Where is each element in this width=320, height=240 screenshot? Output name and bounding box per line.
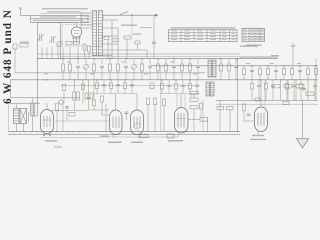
transformer T4 turn 1: [31, 104, 34, 106]
table2 cell r4c1: [243, 36, 247, 39]
capacitor C41: [302, 88, 306, 90]
resistor Rg16: [299, 84, 302, 90]
mains plug arrow: [297, 139, 309, 149]
wire R29 right: [207, 119, 209, 131]
resistor R36: [290, 69, 293, 75]
IF T2 secondary turn 7: [213, 73, 217, 75]
resistor R24: [154, 98, 157, 105]
table column line 2: [193, 30, 195, 42]
heater twist 2: [18, 132, 21, 135]
wire drop L4: [57, 47, 59, 59]
junction 2: [77, 58, 78, 59]
resistor R20: [140, 64, 143, 71]
IF T3 turn 5: [206, 90, 210, 92]
wire mid v: [219, 100, 221, 131]
wire drop c1-15: [173, 59, 175, 64]
resistor Rf0: [95, 83, 98, 89]
resistor R2: [66, 42, 72, 45]
wire top bus vertical: [102, 15, 104, 20]
tube V4 feed 3: [184, 94, 186, 108]
wire drop c2-4: [267, 66, 269, 69]
wire drop c1b-5: [93, 71, 95, 80]
table cell r2c3: [197, 32, 203, 35]
wire drop c1-17: [189, 59, 191, 64]
capacitor C15: [100, 65, 104, 67]
table cell r3c5: [222, 35, 227, 38]
capacitor C30: [234, 65, 238, 67]
coil L1 tap 4: [81, 21, 93, 23]
IF T2 primary turn 3: [208, 65, 212, 67]
wire drop d20-1: [161, 89, 163, 94]
wire drop d21-5: [286, 89, 288, 100]
capacitor C27: [196, 65, 200, 67]
wire left segment: [11, 97, 80, 99]
wire drop f3b: [117, 86, 119, 94]
wire mid h2: [55, 120, 109, 122]
speaker LS1 coil line 4: [14, 117, 20, 119]
tube V3 pins: [139, 135, 141, 138]
tube U1 pin 3: [79, 37, 81, 44]
label value 2: [67, 61, 71, 64]
IF T3 turn 1: [206, 83, 210, 85]
resistor R43: [306, 92, 314, 95]
wire right drop from 50: [146, 50, 148, 59]
tube V3 circle detail: [134, 123, 140, 129]
wire drop c1-16: [181, 59, 183, 64]
wire drop c2-1: [243, 66, 245, 69]
wire drop c1-21: [235, 59, 237, 64]
svg-text:6 W 648 P und N: 6 W 648 P und N: [2, 9, 14, 104]
wire box to U1: [38, 22, 77, 24]
speaker LS1 coil line 1: [14, 110, 20, 112]
wire coil bottom 2: [103, 49, 147, 51]
table2 cell r1c3: [256, 28, 260, 31]
tube V1 pin b: [49, 134, 51, 137]
wire plus drop: [292, 49, 294, 66]
wire R20 drop: [63, 91, 65, 104]
junction 26: [295, 79, 296, 80]
table cell r4c4: [210, 38, 216, 41]
coil L1 tap 5: [81, 24, 93, 26]
resistor R26: [188, 64, 191, 71]
wire mains vertical: [302, 100, 304, 138]
wave switch box divider: [31, 18, 89, 20]
speaker LS1 cone frame: [20, 109, 27, 124]
table2 column line 1: [248, 28, 250, 41]
resistor R29: [200, 118, 208, 122]
capacitor Cm3: [65, 106, 69, 108]
tube U1 pin circle 3: [79, 37, 81, 39]
wire drop e3b: [93, 106, 95, 111]
coil L2 turn 10: [99, 37, 103, 39]
wire mid long vertical: [160, 66, 162, 132]
label below V5: [250, 139, 266, 140]
shield box dashed: [62, 25, 102, 47]
table cell r3c2: [184, 35, 190, 38]
table2 row line 4: [242, 38, 265, 40]
heater twist 9: [60, 132, 63, 135]
junction 10: [220, 58, 221, 59]
wire drop f4: [124, 80, 126, 83]
junction 14: [283, 65, 284, 66]
tube V2 electrode 1: [112, 117, 114, 129]
table2 cell r5c3: [256, 39, 260, 42]
wire R21 drop: [56, 111, 58, 132]
IF T2 secondary turn 2: [213, 63, 217, 65]
resistor R23a: [150, 83, 154, 89]
capacitor C21: [148, 65, 152, 67]
junction 8: [173, 58, 174, 59]
table2 column line 2: [254, 28, 256, 41]
wire drop c2b-1: [243, 75, 245, 80]
coil L1 tap 6: [81, 27, 93, 29]
wire drop c2-10: [315, 66, 317, 69]
tube V1 pin circle b: [49, 134, 51, 136]
wire cluster v b: [193, 109, 195, 132]
tube V2 electrode 3: [118, 117, 120, 129]
wire drop d20-2: [168, 86, 170, 93]
coil L2 turn 3: [99, 17, 103, 19]
resistor R22: [156, 64, 159, 71]
label tube V1 EL11: [45, 140, 57, 142]
wire mid v3: [105, 104, 107, 132]
capacitor Cm1: [73, 92, 76, 100]
junction 15: [299, 65, 300, 66]
resistor R28: [190, 106, 198, 109]
speaker LS1 diagonal 1: [20, 109, 27, 124]
coil L2 turn 15: [99, 52, 103, 54]
wire right col d: [307, 80, 309, 101]
tube V4 electrode 3: [183, 113, 185, 128]
wire x63 drop: [62, 103, 64, 131]
tube V1 grid line: [43, 119, 52, 121]
tube V1 ECL11 envelope: [41, 110, 54, 134]
tube V1 electrode 1: [43, 116, 45, 127]
wire right col a: [280, 80, 282, 101]
capacitor Cg05: [195, 84, 199, 86]
speaker LS1 coil line 3: [14, 115, 20, 117]
wire drop d0-1: [161, 80, 163, 84]
wire drop c2-5: [275, 66, 277, 69]
wire mid v2: [229, 110, 231, 132]
wire screen bus: [38, 53, 241, 55]
wire V4 left drop: [163, 106, 165, 132]
wire parts drop b: [126, 39, 128, 59]
tube U1 pin circle 1: [73, 37, 75, 39]
wire drop d20-3: [175, 89, 177, 94]
capacitor C7: [135, 41, 140, 44]
coil L1 turn 10: [93, 37, 97, 39]
tube V2 EBF11 envelope: [110, 110, 123, 135]
coil L2 turn 1: [99, 11, 103, 13]
coil L1 turn 5: [93, 23, 97, 25]
label value 7: [193, 73, 197, 76]
wire cluster v a: [193, 94, 195, 99]
junction 3: [93, 58, 94, 59]
wire drop f5b: [131, 86, 133, 94]
tube V4 grid cap: [177, 118, 187, 120]
table row line 2: [169, 35, 238, 37]
tube V5 AZ11 envelope: [255, 107, 268, 132]
junction 31: [74, 79, 75, 80]
IF T2 secondary turn 5: [213, 69, 217, 71]
wire drop c1-20: [228, 59, 230, 64]
table column line 1: [180, 30, 182, 42]
wire drop c1b-18: [197, 67, 199, 79]
heater twist 12: [78, 132, 81, 135]
terminal block: [13, 44, 17, 49]
resistor R31: [227, 107, 234, 110]
resistor Rm3: [69, 113, 75, 117]
capacitor C37: [298, 69, 302, 71]
transformer T4 turn 2: [31, 106, 34, 108]
junction 1: [62, 58, 63, 59]
wire antenna down: [20, 9, 22, 15]
wire T4 top: [32, 98, 34, 103]
wire coil out vertical a: [111, 20, 113, 59]
wire drop c1b-8: [117, 71, 119, 80]
speaker LS1 terminals: [28, 112, 30, 122]
table2 cell r5c1: [243, 39, 247, 42]
wire drop d0-5: [189, 80, 191, 84]
IF transformer T2 primary: [208, 60, 212, 77]
IF T2 secondary turn 1: [213, 61, 217, 63]
table2 cell r4c3: [256, 36, 260, 39]
coil L1 turn 2: [93, 14, 97, 16]
table cell r1c4: [210, 29, 216, 32]
tube V4 feed 2: [176, 94, 178, 108]
coil L2 turn 7: [99, 28, 103, 30]
potentiometer P1: [57, 41, 62, 46]
wire right col e: [315, 59, 317, 101]
wire drop d0-2: [168, 80, 170, 84]
capacitor C2 arrow: [49, 36, 56, 43]
IF T3 sec turn 7: [211, 94, 215, 96]
wire left edge vertical: [10, 80, 12, 98]
junction 7: [157, 58, 158, 59]
wire Ca line: [240, 57, 278, 59]
wire e horizontal: [89, 109, 110, 111]
resistor R25: [180, 64, 183, 71]
label mid value: [100, 136, 109, 137]
table2 cell r3c3: [256, 33, 260, 36]
wire drop d21-7: [300, 89, 302, 100]
wire drop c1b-21: [235, 67, 237, 79]
coil L2 turn 12: [99, 43, 103, 45]
table2 cell r4c2: [250, 36, 254, 39]
IF T2 primary turn 2: [208, 63, 212, 65]
junction 21: [161, 79, 162, 80]
table2 cell r2c1: [243, 31, 247, 34]
table cell r2c6: [232, 32, 236, 35]
table cell r4c6: [232, 38, 236, 41]
capacitor Cg03: [181, 84, 185, 86]
tube V4 pin: [177, 133, 179, 137]
wire drop c2b-6: [283, 75, 285, 80]
wire coil out 4: [103, 43, 118, 45]
wire drop d1-6: [293, 80, 295, 84]
junction 30: [56, 131, 57, 132]
table cell r1c5: [222, 29, 227, 32]
table cell r3c3: [197, 35, 203, 38]
capacitor Cg01: [167, 84, 171, 86]
wire screen bus 2: [60, 55, 278, 57]
label value 1: [44, 73, 48, 76]
capacitor C1 arrow: [37, 34, 44, 41]
wire mid2 collector rail: [95, 93, 137, 95]
coil L1 turn 6: [93, 26, 97, 28]
table2 cell r1c2: [250, 28, 254, 31]
tube V5 electrode 2: [260, 113, 262, 126]
wire drop d21-2: [258, 86, 260, 100]
resistor R38: [306, 69, 309, 75]
coil L1 tap 1: [81, 12, 93, 14]
wire drop d1-8: [314, 80, 316, 84]
wire mid collector rail: [160, 93, 200, 95]
wire drop c2-3: [259, 66, 261, 69]
wire drop c1b-17: [189, 71, 191, 80]
coil L1 tap 3: [81, 18, 93, 20]
table cell r3c1: [171, 35, 177, 38]
coil L1 turn 11: [93, 40, 97, 42]
IF T3 turn 7: [206, 94, 210, 96]
table cell r3c4: [210, 35, 216, 38]
table cell r2c5: [222, 32, 227, 35]
wire drop L7: [77, 47, 79, 59]
wire drop c1-6: [101, 59, 103, 64]
wire drop f2: [110, 80, 112, 83]
table2 cell r2c4: [261, 31, 264, 34]
resistor R27: [190, 98, 198, 101]
table header text: [171, 27, 235, 28]
title text 6 W 648 P und N: [2, 9, 14, 104]
tube V5 feed 2: [264, 80, 266, 107]
junction 5: [125, 58, 126, 59]
wire speaker bottom: [16, 124, 18, 132]
resistor Re3: [92, 100, 95, 106]
wave switch row text: [33, 20, 83, 21]
wire R29 left: [188, 118, 200, 120]
wire drop c1-13: [157, 59, 159, 64]
IF T3 turn 2: [206, 84, 210, 86]
resistor Rm2: [90, 93, 93, 99]
wire drop c1-19: [220, 59, 222, 64]
wire V5 left h: [244, 120, 255, 122]
capacitor Cf5: [130, 84, 134, 86]
wire drop c1-4: [85, 59, 87, 64]
capacitor Cg17: [313, 84, 317, 86]
coil L1 turn 8: [93, 31, 97, 33]
resistor R26 left of V4: [163, 99, 166, 106]
wire drop c1-9: [125, 59, 127, 64]
resistor R3: [124, 36, 131, 39]
wire U1 top: [76, 23, 78, 27]
wire right col b: [287, 80, 289, 101]
wire drop c1b-9: [125, 67, 127, 79]
label value 3: [90, 73, 94, 76]
resistor R42: [296, 85, 304, 88]
heater twist 8: [54, 132, 57, 135]
wire C7 drop: [137, 44, 139, 50]
table row line 1: [169, 32, 238, 34]
heater twist 7: [48, 132, 51, 135]
wire drop L3: [51, 47, 53, 59]
coil L2 turn 11: [99, 40, 103, 42]
coil L1 winding: [93, 11, 97, 56]
IF T3 sec turn 5: [211, 90, 215, 92]
table cell r1c6: [232, 29, 236, 32]
tube V4 electrode 2: [180, 113, 182, 128]
wire HT bus: [38, 58, 279, 60]
tube V3 electrode 2: [136, 117, 138, 129]
wire drop d0-6: [196, 80, 198, 84]
wire drop d1-7: [300, 80, 302, 84]
resistor R14: [92, 64, 95, 71]
junction 29: [46, 79, 47, 80]
capacitor C34: [274, 69, 278, 71]
table2 cell r2c2: [250, 31, 254, 34]
label value 5: [144, 73, 148, 76]
resistor R40: [272, 85, 280, 88]
wire Rc2 drop: [88, 52, 90, 59]
wire drop e3: [93, 80, 95, 100]
wire heater rail b: [8, 134, 240, 136]
table column line 3: [206, 30, 208, 42]
resistor R28b: [199, 103, 202, 109]
speaker LS1 diagonal 2: [20, 109, 27, 124]
wire drop d1-1: [251, 80, 253, 84]
resistor Rg00: [160, 84, 163, 90]
speaker LS1 coil line 2: [14, 112, 20, 114]
wire drop c1b-13: [157, 71, 159, 80]
wire drop f2b: [110, 89, 112, 94]
capacitor Cm2: [77, 92, 80, 100]
wire drop c2b-3: [259, 75, 261, 80]
wire drop c1b-4: [85, 69, 87, 80]
resistor Rf4: [123, 83, 126, 89]
capacitor Cf3: [116, 84, 120, 86]
resistor R30: [242, 69, 245, 75]
table cell r2c2: [184, 32, 190, 35]
underline wire: [40, 12, 90, 14]
table2 cell r4c4: [261, 36, 264, 39]
table cell r4c1: [171, 38, 177, 41]
IF T2 primary turn 5: [208, 69, 212, 71]
resistor Rg10: [250, 84, 253, 90]
transformer T4 turn 4: [31, 110, 34, 112]
wire drop c1b-15: [173, 67, 175, 79]
table valve data frame: [169, 30, 238, 42]
capacitor Cg13: [271, 84, 275, 86]
wire drop d0-3: [175, 80, 177, 84]
label C1: [20, 42, 29, 43]
wire V1 anode top: [46, 103, 48, 109]
wire drop L6: [69, 47, 71, 59]
resistor Rg04: [188, 84, 191, 90]
wave switch header text: [40, 16, 76, 17]
IF T2 primary turn 6: [208, 71, 212, 73]
wire drop c2-9: [307, 66, 309, 69]
wire drop c2b-9: [307, 75, 309, 80]
resistor R21: [56, 104, 59, 111]
wire between b: [126, 113, 128, 120]
resistor Rc1: [83, 44, 86, 50]
wire drop L5: [62, 47, 64, 59]
wire drop f1: [103, 80, 105, 83]
transformer T4 primary: [31, 103, 34, 116]
wire drop c1b-6: [101, 67, 103, 79]
capacitor C8: [152, 41, 156, 43]
